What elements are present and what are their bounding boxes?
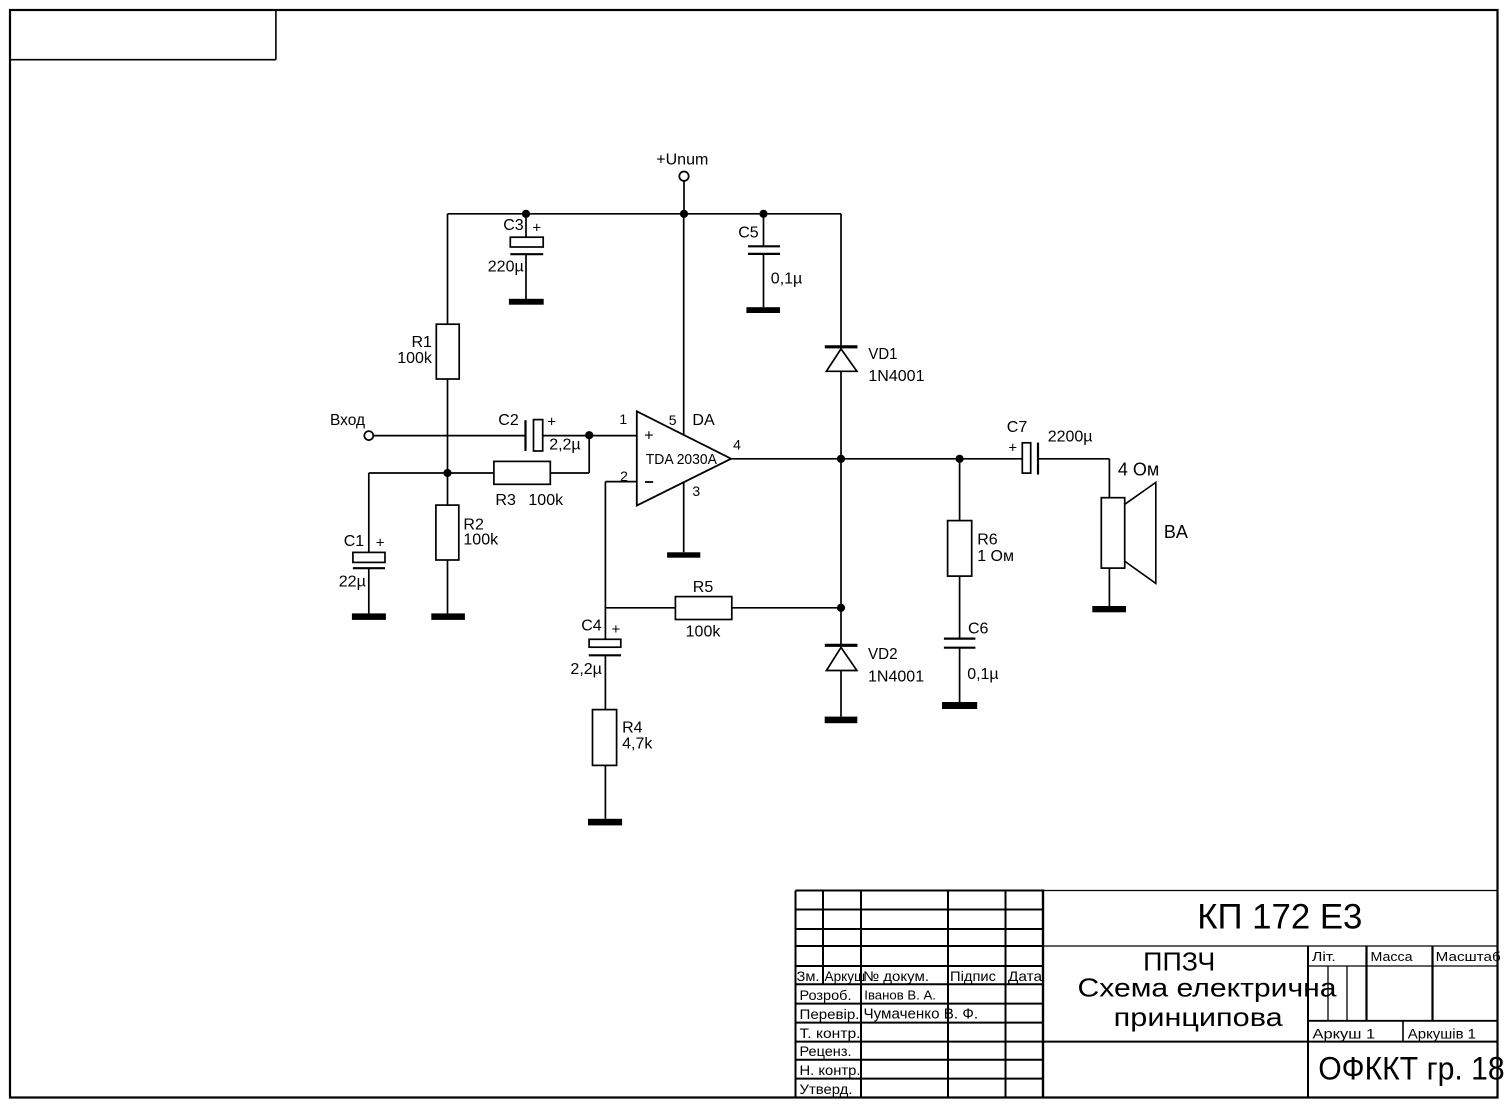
ground pin3 xyxy=(667,552,700,557)
wire C3 from rail xyxy=(525,214,527,238)
capacitor C2 xyxy=(498,412,580,453)
svg-text:№ докум.: № докум. xyxy=(863,968,929,984)
svg-text:100k: 100k xyxy=(463,532,499,549)
svg-text:принципова: принципова xyxy=(1114,1002,1284,1032)
label document title xyxy=(1078,947,1338,1032)
label Zm header row xyxy=(797,968,1043,984)
junction bias node R1-R2-R3-C1 xyxy=(443,469,451,477)
svg-text:220µ: 220µ xyxy=(488,259,524,276)
label T kontr row xyxy=(800,1025,861,1041)
svg-text:+: + xyxy=(1008,440,1017,457)
wire C2 to pin1 xyxy=(543,435,637,437)
ground C3 xyxy=(509,299,544,305)
svg-text:100k: 100k xyxy=(397,350,433,367)
svg-text:C7: C7 xyxy=(1007,419,1028,436)
op-amp DA TDA 2030A xyxy=(637,411,731,505)
label Perevir row xyxy=(800,1006,979,1023)
wire VD1 to output line xyxy=(840,371,842,459)
svg-text:100k: 100k xyxy=(686,623,722,640)
junction power rail / C3 xyxy=(522,210,530,218)
title block right grid xyxy=(1043,891,1498,1098)
svg-text:3: 3 xyxy=(692,483,700,499)
svg-text:Масштаб: Масштаб xyxy=(1436,949,1501,964)
diode VD1 xyxy=(825,346,925,385)
label Recenz row xyxy=(800,1043,852,1059)
svg-text:+: + xyxy=(532,220,541,237)
label N kontr row xyxy=(800,1062,861,1078)
svg-text:Дата: Дата xyxy=(1008,968,1042,984)
wire power rail horizontal xyxy=(448,213,842,215)
svg-text:1 Ом: 1 Ом xyxy=(977,548,1014,565)
svg-text:+: + xyxy=(612,621,621,638)
wire C6 to ground xyxy=(959,648,961,702)
diode VD2 xyxy=(825,645,924,685)
svg-text:0,1µ: 0,1µ xyxy=(967,666,998,683)
wire R6 branch xyxy=(959,459,961,521)
svg-text:R1: R1 xyxy=(411,334,432,351)
wire bias node to R3 xyxy=(369,472,494,474)
capacitor C5 xyxy=(738,224,802,287)
ground VD2 xyxy=(825,717,858,724)
svg-text:R4: R4 xyxy=(622,720,643,737)
svg-text:Розроб.: Розроб. xyxy=(800,987,852,1003)
svg-text:Утверд.: Утверд. xyxy=(800,1081,853,1097)
wire R3 to C2 output node xyxy=(550,435,589,473)
wire C3 to ground xyxy=(525,255,527,299)
label organization OFKKT gr. 18 xyxy=(1318,1051,1505,1087)
wire R2 to ground xyxy=(447,560,449,613)
svg-text:VD2: VD2 xyxy=(868,646,898,663)
svg-text:VD1: VD1 xyxy=(868,346,897,363)
pin 3 label xyxy=(692,483,700,499)
svg-text:C6: C6 xyxy=(968,620,989,637)
resistor R3 xyxy=(494,461,564,509)
svg-text:22µ: 22µ xyxy=(339,574,366,591)
wire VD2 to ground xyxy=(840,671,842,717)
svg-text:+: + xyxy=(376,535,385,552)
svg-text:Схема електрична: Схема електрична xyxy=(1078,973,1338,1003)
capacitor C1 xyxy=(339,533,385,591)
svg-text:2,2µ: 2,2µ xyxy=(570,661,601,678)
svg-text:100k: 100k xyxy=(528,492,564,509)
wire R4 to ground xyxy=(604,765,606,818)
pin 5 label xyxy=(669,412,677,428)
wire feedback node to R5 xyxy=(605,607,675,609)
label Arkush 1 xyxy=(1313,1026,1376,1042)
junction power rail / C5 xyxy=(759,210,767,218)
title block left table grid xyxy=(796,890,1044,1098)
svg-text:Підпис: Підпис xyxy=(950,968,996,984)
svg-text:Масса: Масса xyxy=(1371,949,1414,964)
label 4 Om xyxy=(1118,460,1159,480)
pin 4 label xyxy=(733,436,741,452)
svg-text:4 Ом: 4 Ом xyxy=(1118,460,1159,480)
svg-text:Аркуш: Аркуш xyxy=(825,968,866,984)
label Rozrob row xyxy=(800,987,936,1003)
svg-text:Аркушів 1: Аркушів 1 xyxy=(1408,1026,1476,1042)
svg-text:1: 1 xyxy=(619,411,627,427)
svg-text:BA: BA xyxy=(1164,522,1188,542)
svg-text:C4: C4 xyxy=(581,618,602,635)
svg-text:4,7k: 4,7k xyxy=(622,736,653,753)
wire pin2 to feedback node xyxy=(605,482,636,640)
label Lit xyxy=(1312,949,1336,964)
svg-text:+: + xyxy=(644,427,653,444)
capacitor C3 xyxy=(488,217,543,276)
ground speaker xyxy=(1092,606,1126,612)
svg-text:R6: R6 xyxy=(977,532,998,549)
label Arkushiv 1 xyxy=(1408,1026,1476,1042)
svg-text:R3: R3 xyxy=(495,492,516,509)
wire bias node to R2 xyxy=(447,473,449,505)
svg-text:5: 5 xyxy=(669,412,677,428)
svg-text:1N4001: 1N4001 xyxy=(868,668,924,685)
svg-text:+Unum: +Unum xyxy=(656,151,708,168)
svg-text:Літ.: Літ. xyxy=(1312,949,1336,964)
svg-text:Аркуш 1: Аркуш 1 xyxy=(1313,1026,1376,1042)
wire C7 to speaker xyxy=(1038,459,1109,498)
resistor R6 xyxy=(948,521,1014,577)
svg-text:C2: C2 xyxy=(498,412,519,429)
svg-text:2,2µ: 2,2µ xyxy=(549,436,580,453)
ground R2 xyxy=(431,613,465,620)
wire pin3 to ground xyxy=(683,482,685,552)
wire R1 to input line xyxy=(447,379,449,436)
svg-text:Перевір.: Перевір. xyxy=(800,1006,860,1022)
svg-text:4: 4 xyxy=(733,436,741,452)
svg-text:Іванов В. А.: Іванов В. А. xyxy=(864,988,936,1003)
wire speaker to ground xyxy=(1108,568,1110,606)
label Utverd row xyxy=(800,1081,853,1097)
svg-text:0,1µ: 0,1µ xyxy=(771,270,802,287)
resistor R5 xyxy=(675,579,731,640)
resistor R4 xyxy=(593,710,654,766)
svg-text:C5: C5 xyxy=(738,224,759,241)
svg-text:1N4001: 1N4001 xyxy=(868,368,924,385)
ground C5 xyxy=(746,307,780,313)
resistor R2 xyxy=(436,505,499,560)
svg-text:Реценз.: Реценз. xyxy=(800,1043,852,1059)
label document code KP 172 E3 xyxy=(1197,897,1362,936)
wire rail to VD1 xyxy=(840,214,842,347)
ground R4 xyxy=(588,819,622,826)
node input terminal xyxy=(330,412,373,440)
pin 1 label xyxy=(619,411,627,427)
wire VD column output to VD2 xyxy=(840,459,842,645)
junction output / VD column xyxy=(837,455,845,463)
wire C1 branch xyxy=(368,473,370,552)
svg-text:C1: C1 xyxy=(344,533,365,550)
svg-text:Н. контр.: Н. контр. xyxy=(800,1062,861,1078)
capacitor C6 xyxy=(944,620,999,683)
wire pin5 supply line xyxy=(683,214,685,435)
wire C5 to ground xyxy=(763,254,765,307)
junction power rail / pin5 xyxy=(680,210,688,218)
junction C2 / R3 xyxy=(585,431,593,439)
junction output / R6 xyxy=(956,455,964,463)
wire R5 to VD2 node xyxy=(732,607,841,609)
wire +Unum terminal to power rail xyxy=(683,181,685,214)
wire R6 to C6 xyxy=(959,576,961,639)
speaker BA xyxy=(1101,482,1188,583)
svg-text:Чумаченко В. Ф.: Чумаченко В. Ф. xyxy=(864,1006,979,1023)
wire C5 from rail xyxy=(763,214,765,247)
wire input line cross down to bias node xyxy=(447,436,449,473)
capacitor C7 xyxy=(1007,419,1093,475)
svg-text:Зм.: Зм. xyxy=(797,968,820,984)
svg-text:2200µ: 2200µ xyxy=(1048,429,1093,446)
svg-text:R5: R5 xyxy=(693,579,714,596)
wire C1 to ground xyxy=(368,568,370,613)
svg-text:+: + xyxy=(547,414,556,431)
pin 2 label xyxy=(620,468,628,484)
svg-text:ОФККТ гр. 18: ОФККТ гр. 18 xyxy=(1318,1051,1505,1087)
svg-text:C3: C3 xyxy=(503,217,524,234)
ground C6 xyxy=(942,702,977,709)
junction VD2 / R5 xyxy=(837,604,845,612)
top-left reference box xyxy=(10,10,276,60)
capacitor C4 xyxy=(570,618,621,678)
svg-text:Вход: Вход xyxy=(330,412,365,429)
label Masshtab xyxy=(1436,949,1501,964)
label Massa xyxy=(1371,949,1414,964)
svg-text:TDA 2030A: TDA 2030A xyxy=(646,452,717,468)
wire rail down to R1 xyxy=(447,214,449,324)
ground C1 xyxy=(352,613,386,620)
svg-text:DA: DA xyxy=(692,412,715,429)
wire output line xyxy=(731,458,1022,460)
resistor R1 xyxy=(397,324,459,379)
svg-text:Т. контр.: Т. контр. xyxy=(800,1025,861,1041)
wire C4 to R4 xyxy=(604,655,606,709)
svg-text:КП 172 Е3: КП 172 Е3 xyxy=(1197,897,1362,936)
wire input to C2 xyxy=(373,435,525,437)
node +Unum power terminal xyxy=(656,151,708,181)
